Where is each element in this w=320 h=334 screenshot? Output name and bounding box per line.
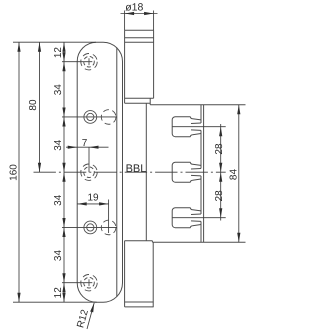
- barrel left edge: [124, 30, 126, 103]
- svg-text:80: 80: [28, 99, 39, 111]
- knuckle inner edge segment 4: [200, 221, 202, 242]
- arrow 28 mid down: [219, 172, 222, 182]
- arrow 28 top up: [219, 127, 222, 137]
- barrel bottom edge: [125, 306, 154, 308]
- bottom extension line: [13, 301, 97, 303]
- svg-text:12: 12: [53, 287, 64, 299]
- svg-text:34: 34: [53, 194, 64, 206]
- extension line 7: [88, 147, 90, 172]
- plate fold line: [116, 48, 118, 297]
- svg-text:R12: R12: [75, 308, 91, 329]
- barrel leaf top line: [125, 41, 154, 43]
- dimension line 19: [77, 203, 108, 205]
- barrel lower left edge: [124, 241, 126, 307]
- extension line d18 left: [124, 11, 126, 31]
- knuckle bottom edge left: [125, 240, 153, 242]
- top extension line: [13, 41, 96, 43]
- knuckle tab top tooth 3: [191, 213, 201, 216]
- chain arrow bottom: [62, 293, 65, 303]
- chain arrow top: [62, 42, 65, 52]
- chain arrow 227 up: [62, 218, 65, 228]
- knuckle tooth 1: [172, 117, 201, 137]
- knuckle bottom step: [151, 241, 153, 243]
- barrel cap line: [125, 37, 154, 39]
- knuckle left edge: [145, 103, 147, 241]
- chain arrow 283 up: [62, 273, 65, 283]
- knuckle tab bottom tooth 3: [191, 220, 201, 223]
- chain arrow 283 down: [62, 283, 65, 293]
- chain arrow 117 down: [62, 117, 65, 127]
- barrel lower right edge: [152, 242, 154, 307]
- dimension line 80: [39, 42, 41, 172]
- extension line 19: [108, 200, 110, 234]
- chain arrow 227 down: [62, 227, 65, 237]
- hole row line 1: [62, 61, 92, 63]
- dimension line 28: [220, 124, 222, 221]
- arrow 84 bottom: [237, 233, 240, 243]
- knuckle tab bottom tooth 1: [191, 129, 201, 132]
- barrel top edge: [125, 29, 154, 31]
- hole row line 4: [62, 226, 117, 228]
- svg-text:34: 34: [53, 84, 64, 96]
- leaf plate outline: [77, 42, 122, 302]
- knuckle inner edge segment 1: [200, 105, 202, 123]
- screw hole B4 dashed: [101, 220, 116, 235]
- svg-text:28: 28: [214, 143, 225, 155]
- arrow d18 right: [144, 12, 154, 15]
- knuckle inner edge segment 3: [200, 176, 202, 214]
- arrow 80 top: [38, 42, 41, 52]
- chain arrow 117 up: [62, 107, 65, 117]
- arrow 7 right: [89, 146, 99, 149]
- extension line 28 top: [172, 126, 225, 128]
- knuckle tab top tooth 1: [191, 122, 201, 125]
- screw hole A2: [84, 111, 97, 124]
- arrow 19 right: [99, 202, 109, 205]
- screw hole A3 dashed: [81, 164, 97, 180]
- dimension line 7: [66, 146, 109, 148]
- arrow 160 top: [17, 42, 20, 52]
- svg-text:84: 84: [229, 169, 240, 181]
- svg-text:34: 34: [53, 250, 64, 262]
- hole row line 2: [62, 116, 117, 118]
- knuckle bottom edge: [152, 241, 245, 243]
- svg-text:BBL: BBL: [126, 163, 147, 175]
- arrow 84 top: [237, 105, 240, 115]
- knuckle tab bottom tooth 2: [191, 174, 201, 177]
- knuckle top edge left: [125, 102, 151, 104]
- svg-text:7: 7: [82, 138, 88, 149]
- arrow 19 left: [77, 202, 87, 205]
- arrow 28 mid up: [219, 163, 222, 173]
- chain arrow 172 up: [62, 163, 65, 173]
- arrow 7 left: [68, 146, 78, 149]
- chain arrow 172 down: [62, 172, 65, 182]
- arrow 28 bottom down: [219, 208, 222, 218]
- screw hole A4: [84, 221, 97, 234]
- svg-text:160: 160: [8, 164, 19, 181]
- arrow 80 bottom: [38, 163, 41, 173]
- svg-text:34: 34: [53, 139, 64, 151]
- barrel lower leaf line: [125, 301, 154, 303]
- svg-text:12: 12: [53, 47, 64, 59]
- dimension line 84: [238, 105, 240, 242]
- centerline: [34, 171, 226, 173]
- svg-text:19: 19: [87, 193, 99, 204]
- screw hole A5 dashed: [81, 275, 97, 291]
- svg-text:ø18: ø18: [125, 1, 143, 13]
- screw hole A1 dashed: [81, 54, 97, 70]
- knuckle top step: [149, 98, 151, 105]
- knuckle right edge: [203, 105, 205, 242]
- chain arrow 61.7 down: [62, 62, 65, 71]
- extension line 28 bottom: [172, 217, 225, 219]
- dimension line d18: [121, 13, 158, 15]
- knuckle top edge: [150, 104, 245, 106]
- knuckle tooth 2: [172, 162, 201, 182]
- arrow R12: [90, 303, 94, 313]
- knuckle inner edge segment 2: [200, 130, 202, 168]
- screw hole B2 dashed: [101, 110, 116, 125]
- dimension line 160: [18, 42, 20, 302]
- barrel right edge: [153, 30, 155, 98]
- knuckle tooth 3: [172, 208, 201, 228]
- knuckle tab top tooth 2: [191, 168, 201, 171]
- chain dimension line: [63, 42, 65, 302]
- hole row line 5: [62, 282, 92, 284]
- chain arrow 61.7 up: [62, 52, 65, 62]
- arrow 160 bottom: [17, 293, 20, 303]
- arrow d18 left: [125, 12, 135, 15]
- svg-text:28: 28: [214, 190, 225, 202]
- barrel section bottom edge: [125, 97, 154, 99]
- leader R12: [87, 303, 94, 329]
- extension line d18 right: [153, 11, 155, 31]
